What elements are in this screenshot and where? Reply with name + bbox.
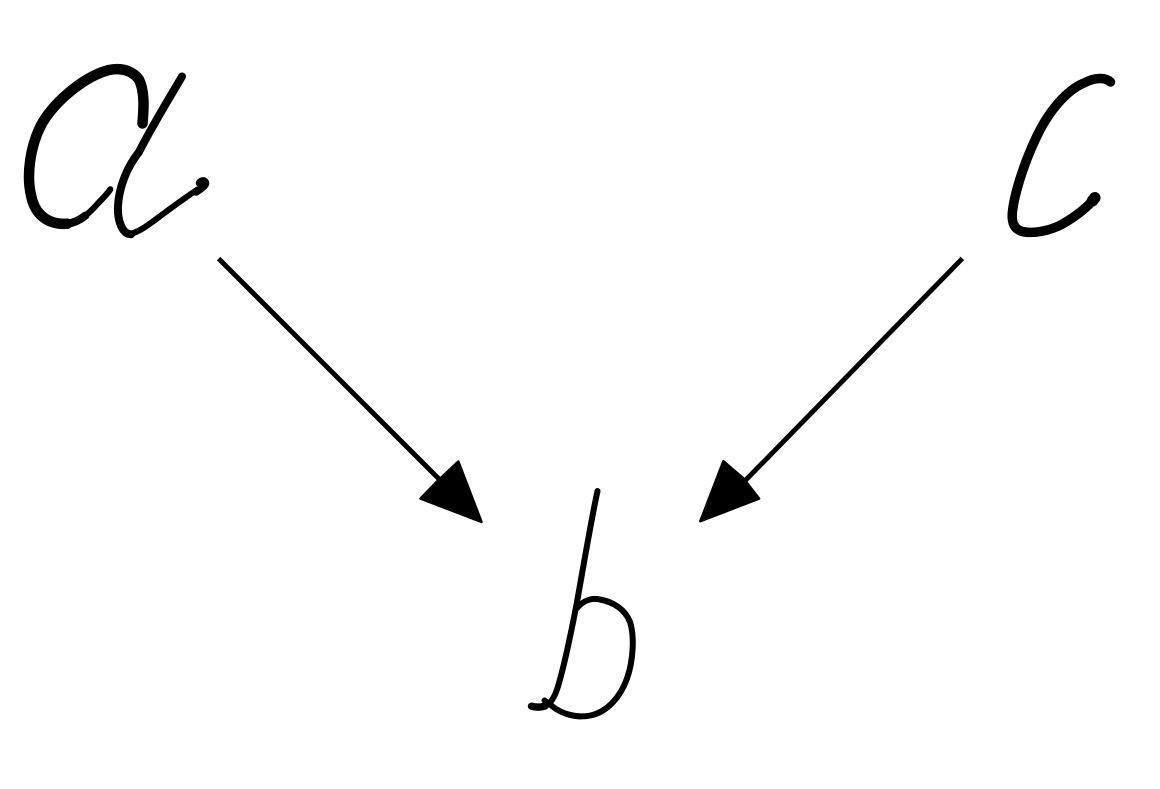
edge c->b : arrowhead	[700, 461, 759, 521]
edge c->b : shaft	[738, 258, 962, 488]
node c (handwritten letter c)	[1012, 78, 1110, 232]
node b (handwritten letter b)	[532, 491, 633, 716]
edge a->b : arrowhead	[421, 462, 482, 522]
node a (handwritten letter a)	[29, 69, 205, 234]
edge a->b : shaft	[219, 259, 455, 495]
